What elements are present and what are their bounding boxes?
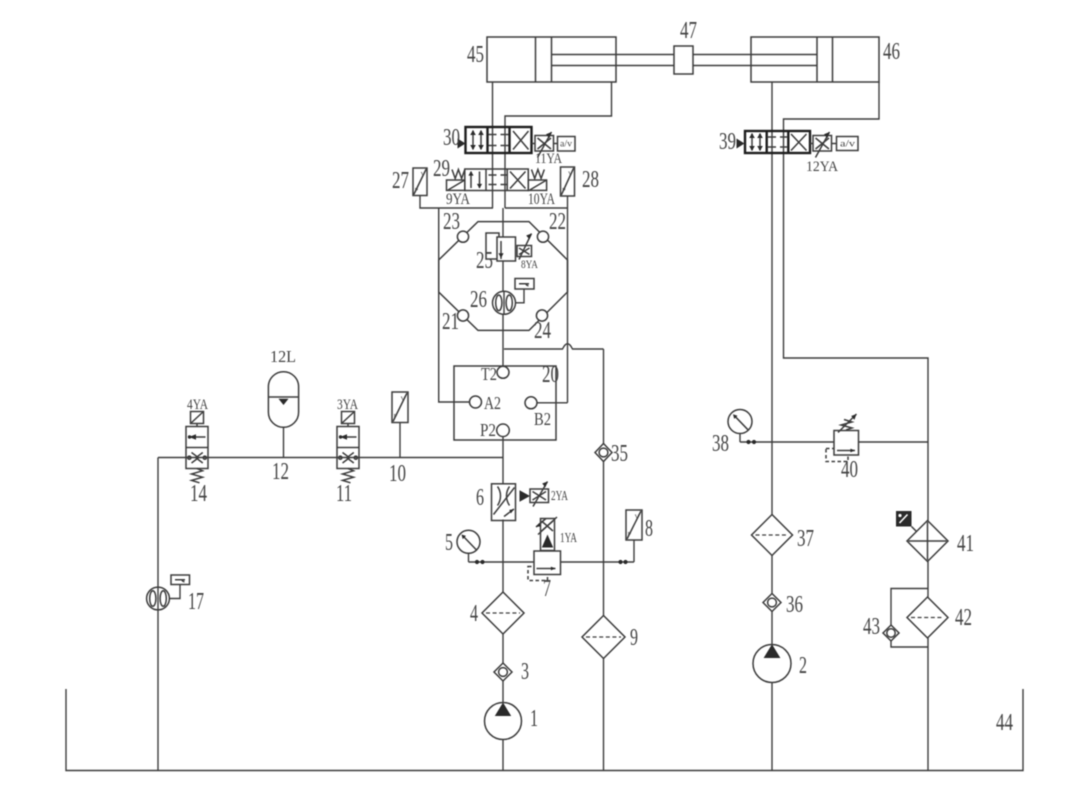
- svg-text:17: 17: [188, 589, 204, 615]
- check valve 21: [457, 310, 468, 321]
- svg-text:28: 28: [582, 167, 599, 193]
- svg-text:10: 10: [389, 461, 406, 487]
- wire: drain line through 35 and filter 9 to tank: [603, 349, 605, 771]
- valve 39 (3-pos directional, proportional): [737, 131, 811, 153]
- svg-text:12: 12: [272, 459, 289, 485]
- port A2: [470, 396, 482, 408]
- svg-text:P: P: [415, 187, 419, 194]
- wire: T2 horizontal with bridge hop: [504, 344, 604, 349]
- sensor 28 (pressure transducer): [561, 167, 575, 196]
- cylinder 45: [487, 37, 674, 82]
- wire: center column through octagon to T2: [502, 208, 504, 366]
- svg-text:30: 30: [443, 125, 460, 151]
- wire: pilot line gauge38 to relief 40 line: [740, 441, 928, 443]
- svg-text:27: 27: [392, 168, 409, 194]
- svg-text:39: 39: [719, 129, 736, 155]
- svg-text:36: 36: [786, 592, 803, 618]
- svg-text:9YA: 9YA: [446, 191, 470, 208]
- sensor box of 26: [515, 279, 534, 290]
- svg-text:V: V: [401, 396, 406, 403]
- wire: B2 horizontal: [537, 402, 568, 404]
- svg-text:22: 22: [549, 209, 566, 235]
- svg-text:23: 23: [443, 209, 460, 235]
- wire: flow indicator 17 sensor stem: [169, 584, 180, 599]
- pilot throttle of valve 30: [532, 132, 558, 158]
- wire: filter 42 bypass: [891, 589, 928, 648]
- solenoid 2YA of valve 6: [520, 482, 549, 507]
- svg-text:41: 41: [957, 531, 974, 557]
- svg-text:T2: T2: [481, 364, 497, 384]
- right solenoid+spring of valve 29 (10YA): [528, 170, 546, 191]
- valve 11 (2/2 solenoid 3YA): [337, 412, 359, 483]
- svg-text:V: V: [568, 171, 573, 178]
- flow indicator 17: [147, 587, 170, 610]
- svg-text:9: 9: [630, 625, 638, 651]
- svg-text:40: 40: [841, 457, 858, 483]
- wire: cylinder45 B-line jog through valves: [505, 82, 612, 208]
- rod wire 47 to cylinder 46: [693, 55, 817, 66]
- port B2: [525, 397, 537, 409]
- svg-text:1: 1: [530, 706, 538, 732]
- valve 30 (3-pos directional, proportional): [458, 127, 532, 153]
- svg-text:11: 11: [336, 481, 352, 507]
- wire: sensor 27 link: [420, 196, 493, 209]
- valve 14 (2/2 solenoid 4YA): [186, 412, 208, 483]
- pilot throttle of valve 39: [810, 132, 837, 158]
- wire: pilot line gauge5 to sensor8: [469, 561, 635, 563]
- svg-text:P: P: [628, 531, 632, 538]
- filter 41 with clogging indicator: [896, 511, 948, 562]
- wire: left branch vertical down to tank: [157, 458, 159, 771]
- svg-text:7: 7: [543, 576, 551, 602]
- wire: pump 1 column: [502, 520, 504, 771]
- wire: cylinder46 A-line down to pump 2 and tank: [771, 82, 773, 771]
- svg-text:14: 14: [190, 481, 207, 507]
- amplifier box a/v of valve 30: [558, 137, 576, 152]
- check valve 35: [595, 444, 612, 462]
- svg-text:37: 37: [797, 526, 814, 552]
- svg-text:A2: A2: [484, 393, 501, 413]
- wire: accumulator 12 stem: [283, 427, 285, 457]
- svg-text:42: 42: [955, 605, 972, 631]
- coupling 47: [674, 46, 693, 74]
- svg-text:12YA: 12YA: [806, 159, 838, 175]
- check valve 43: [883, 625, 899, 641]
- wire: gauge 5 stem: [468, 553, 470, 562]
- filter 42: [907, 597, 948, 638]
- svg-text:2: 2: [799, 653, 807, 679]
- wire: cylinder45 A-line through valves 30,29: [492, 82, 494, 208]
- svg-text:45: 45: [467, 42, 484, 68]
- svg-text:24: 24: [534, 318, 551, 344]
- coupling dots near gauge 5: [475, 560, 479, 564]
- relief valve 25 (8YA): [486, 233, 516, 261]
- svg-text:5: 5: [445, 530, 453, 556]
- accumulator 12: [268, 372, 298, 428]
- svg-text:2YA: 2YA: [551, 489, 569, 504]
- wire: left branch horizontal line: [158, 457, 503, 459]
- svg-text:12L: 12L: [270, 347, 296, 366]
- svg-text:a/v: a/v: [560, 139, 573, 149]
- svg-text:V: V: [635, 514, 640, 521]
- svg-text:26: 26: [470, 287, 487, 313]
- svg-text:B2: B2: [534, 409, 551, 429]
- wire: P2 column upper: [502, 437, 504, 484]
- pump 2: [753, 644, 791, 682]
- svg-text:3: 3: [521, 659, 529, 685]
- svg-text:35: 35: [611, 441, 628, 467]
- cylinder 46: [751, 37, 879, 82]
- check valve 3: [494, 663, 512, 681]
- relief valve 40: [826, 414, 859, 462]
- svg-text:47: 47: [680, 18, 697, 44]
- svg-text:3YA: 3YA: [337, 397, 358, 413]
- sensor 27 (pressure transducer): [413, 168, 427, 196]
- svg-text:11YA: 11YA: [535, 151, 562, 167]
- left solenoid+spring of valve 29 (9YA): [447, 170, 465, 191]
- rotary manifold octagon: [439, 222, 568, 331]
- coupling dots near gauge 38: [746, 440, 750, 444]
- svg-text:1YA: 1YA: [560, 531, 578, 546]
- flow control valve 6: [492, 484, 516, 521]
- svg-text:P2: P2: [480, 420, 496, 440]
- proportional relief valve 7 (1YA): [528, 517, 561, 581]
- check valve 22: [537, 231, 548, 242]
- check valve 36: [763, 594, 781, 612]
- wire: cylinder46 B-line jog down to filter 41 and tank: [784, 82, 929, 771]
- svg-text:46: 46: [883, 39, 900, 65]
- filter 37: [752, 515, 793, 556]
- wire: rotary joint 26 sensor stem: [516, 289, 525, 303]
- svg-text:P: P: [562, 187, 566, 194]
- port T2: [497, 366, 509, 378]
- wire: octagon-left line down to A2: [439, 208, 470, 402]
- check valve 24: [536, 310, 547, 321]
- filter 9: [582, 616, 625, 659]
- check valve 23: [457, 231, 468, 242]
- wire: gauge 38 stem: [739, 433, 741, 443]
- port P2: [497, 424, 510, 437]
- svg-text:38: 38: [712, 431, 729, 457]
- rotary joint 26: [493, 291, 516, 314]
- wire: sensor 28 link: [505, 196, 568, 208]
- svg-text:4YA: 4YA: [187, 397, 208, 413]
- svg-text:10YA: 10YA: [528, 191, 555, 208]
- svg-text:43: 43: [863, 614, 880, 640]
- pump 1: [485, 703, 522, 740]
- svg-text:20: 20: [542, 362, 559, 388]
- sensor box of 17: [171, 575, 190, 585]
- pressure gauge 5: [457, 530, 480, 553]
- valve 29 (3-pos 4-way solenoid valve): [465, 169, 529, 191]
- svg-text:4: 4: [470, 601, 478, 627]
- coupling dots near sensor 8: [618, 560, 622, 564]
- svg-text:25: 25: [476, 248, 493, 274]
- svg-text:21: 21: [442, 309, 459, 335]
- wire: sensor 8 stem: [633, 540, 635, 563]
- sensor 8 (pressure transducer): [626, 510, 642, 540]
- svg-text:V: V: [421, 171, 426, 178]
- filter 4: [482, 592, 524, 634]
- solenoid 8YA of valve 25: [517, 234, 532, 260]
- svg-text:44: 44: [996, 710, 1013, 736]
- svg-text:P: P: [394, 413, 398, 420]
- pressure gauge 38: [728, 410, 752, 434]
- amplifier box a/v of valve 39: [837, 137, 859, 151]
- svg-text:8YA: 8YA: [521, 257, 538, 271]
- sensor 10 (pressure transducer): [392, 392, 408, 423]
- wire: octagon-right line down to B2: [567, 208, 569, 403]
- svg-text:29: 29: [433, 156, 450, 182]
- manifold block 20: [454, 366, 556, 440]
- svg-text:8: 8: [645, 516, 653, 542]
- wire: sensor 10 stem: [399, 423, 401, 458]
- tank 44 outline: [66, 689, 1023, 771]
- svg-text:a/v: a/v: [840, 139, 856, 149]
- svg-text:6: 6: [476, 485, 484, 511]
